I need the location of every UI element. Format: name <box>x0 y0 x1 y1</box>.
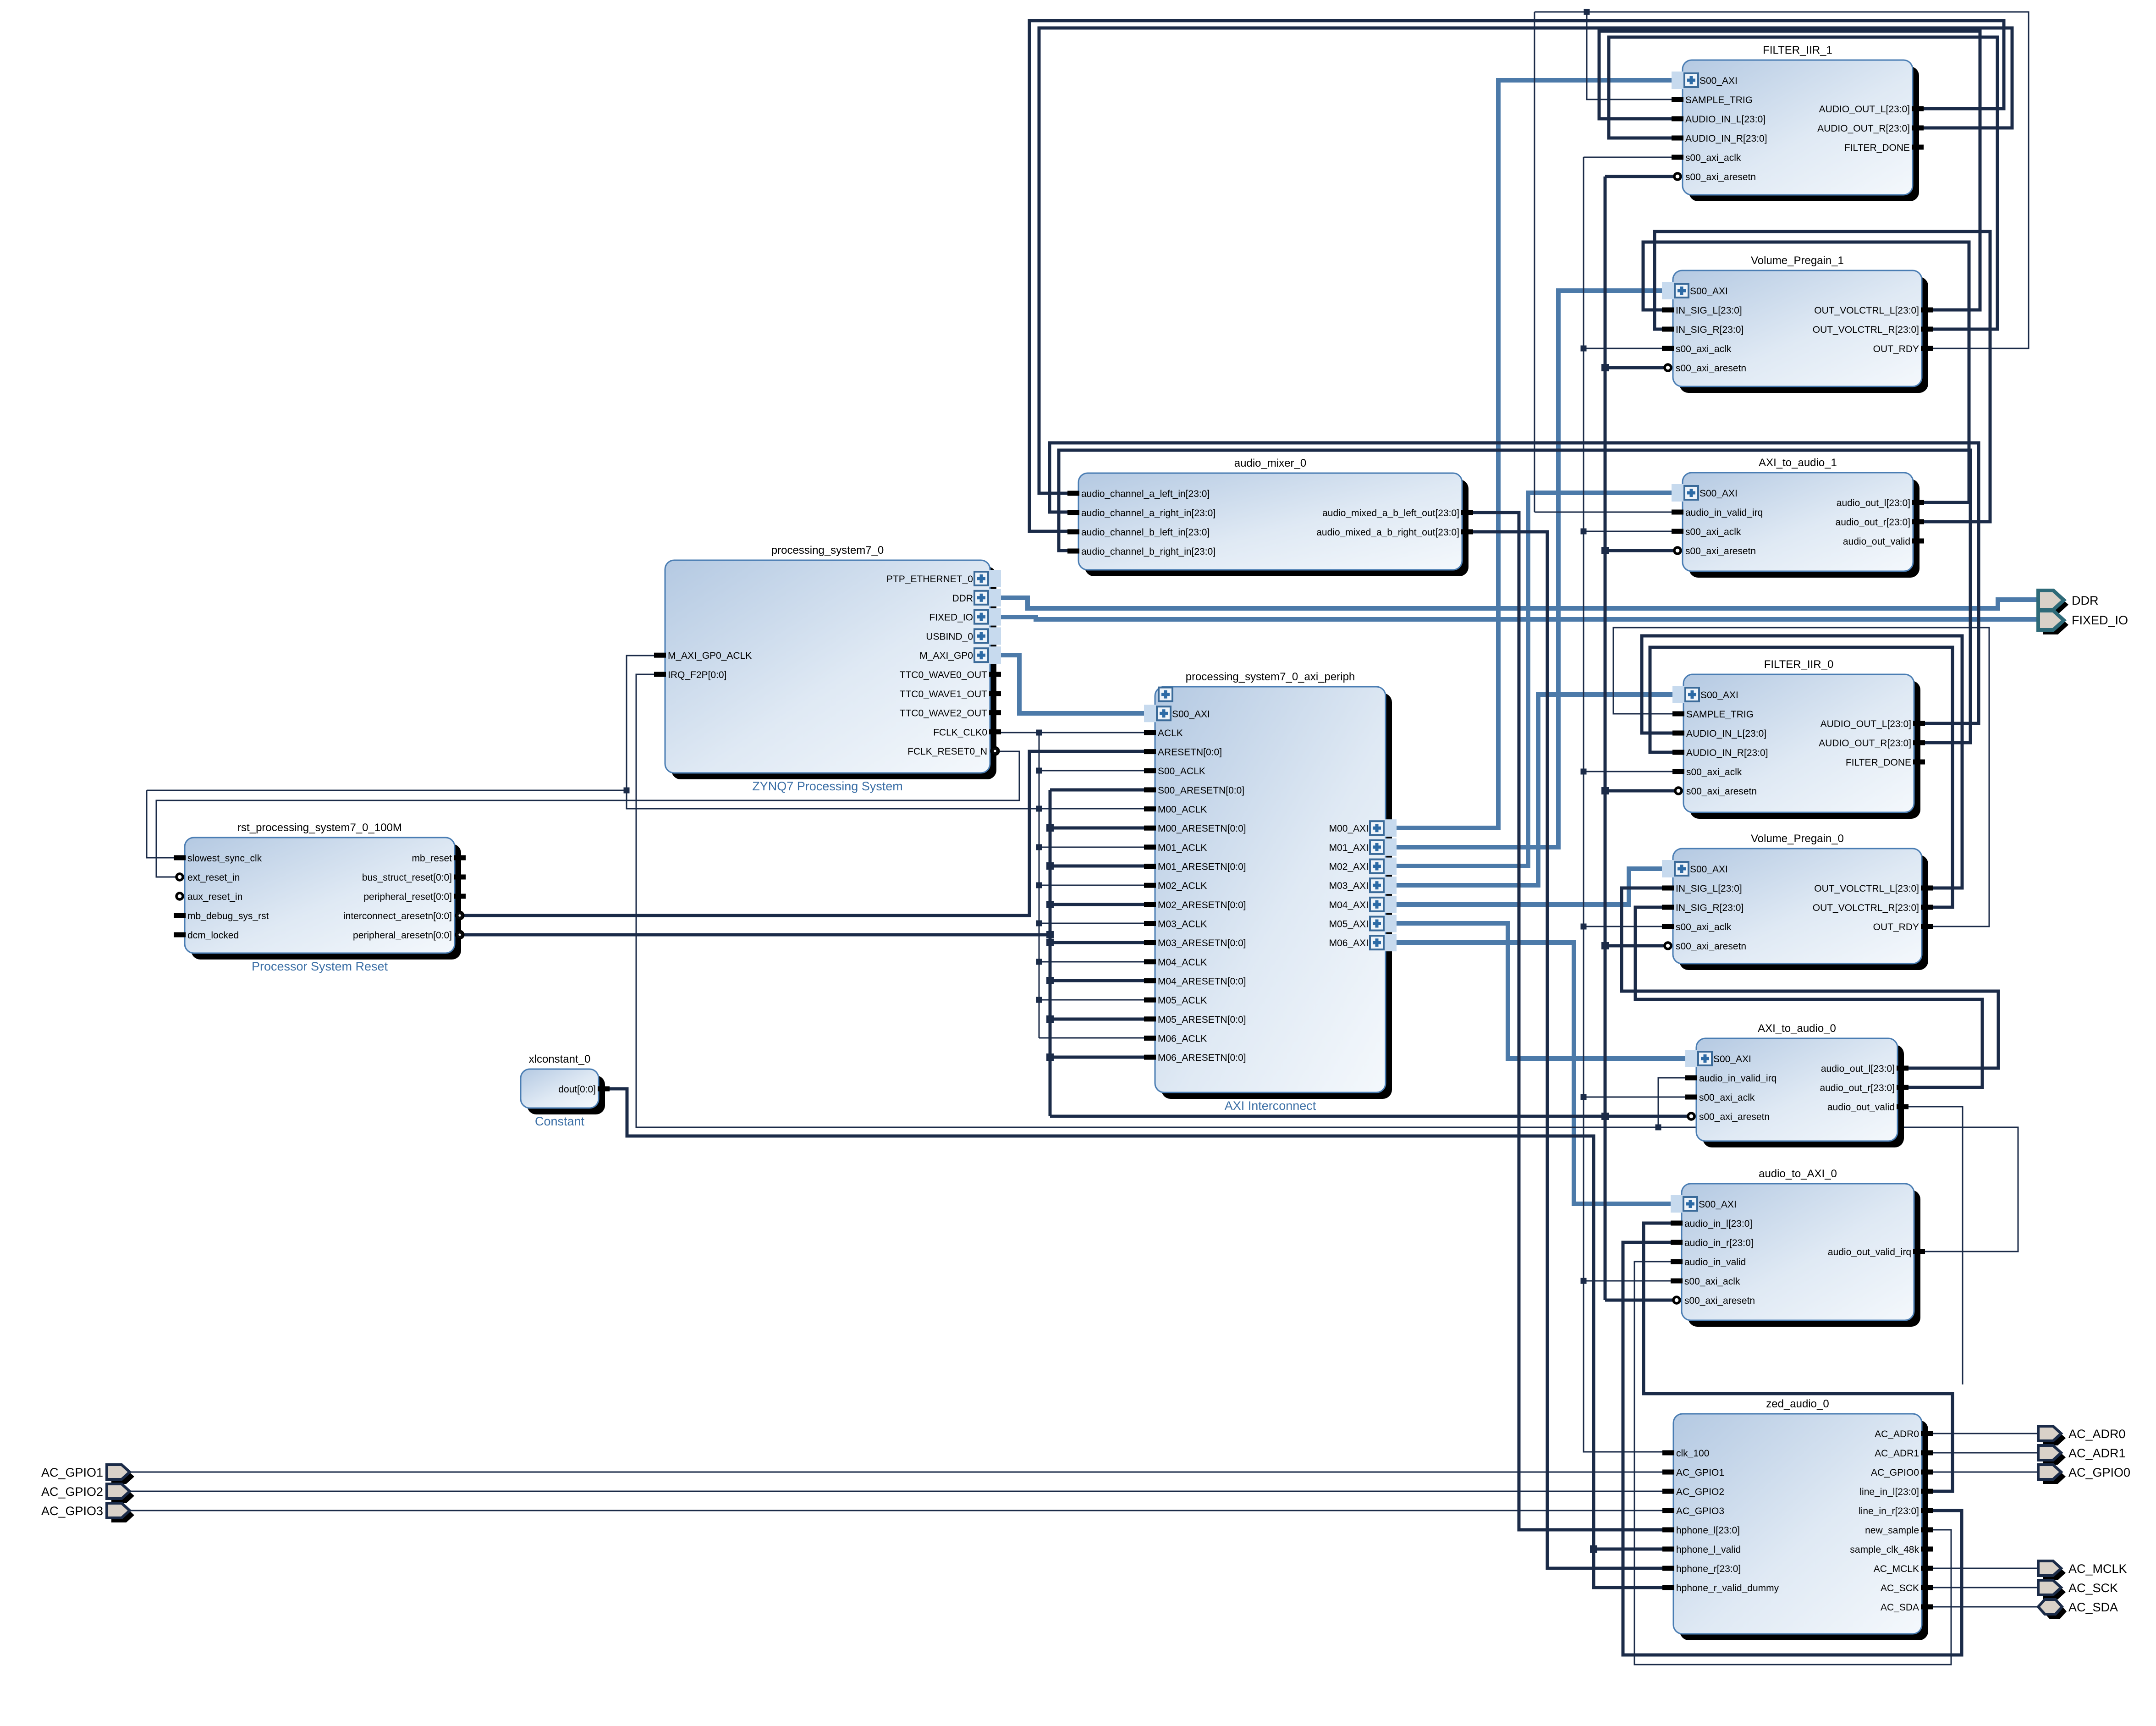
svg-text:IN_SIG_L[23:0]: IN_SIG_L[23:0] <box>1676 305 1742 316</box>
svg-text:OUT_RDY: OUT_RDY <box>1873 344 1919 354</box>
svg-text:s00_axi_aclk: s00_axi_aclk <box>1699 1092 1755 1103</box>
svg-text:AUDIO_IN_L[23:0]: AUDIO_IN_L[23:0] <box>1685 114 1765 125</box>
svg-text:AUDIO_OUT_L[23:0]: AUDIO_OUT_L[23:0] <box>1819 104 1910 115</box>
svg-text:AC_ADR1: AC_ADR1 <box>2068 1446 2126 1460</box>
svg-text:line_in_l[23:0]: line_in_l[23:0] <box>1859 1487 1919 1497</box>
svg-text:OUT_VOLCTRL_R[23:0]: OUT_VOLCTRL_R[23:0] <box>1813 325 1919 335</box>
svg-text:processing_system7_0_axi_perip: processing_system7_0_axi_periph <box>1186 671 1355 683</box>
svg-text:s00_axi_aresetn: s00_axi_aresetn <box>1676 941 1746 952</box>
svg-text:M00_ARESETN[0:0]: M00_ARESETN[0:0] <box>1158 823 1246 834</box>
svg-text:s00_axi_aresetn: s00_axi_aresetn <box>1685 172 1756 182</box>
svg-text:AC_GPIO0: AC_GPIO0 <box>2068 1466 2130 1479</box>
svg-text:IN_SIG_L[23:0]: IN_SIG_L[23:0] <box>1676 883 1742 894</box>
svg-text:SAMPLE_TRIG: SAMPLE_TRIG <box>1685 95 1753 105</box>
svg-text:audio_channel_a_left_in[23:0]: audio_channel_a_left_in[23:0] <box>1081 489 1210 499</box>
svg-text:peripheral_aresetn[0:0]: peripheral_aresetn[0:0] <box>353 930 452 941</box>
svg-text:IN_SIG_R[23:0]: IN_SIG_R[23:0] <box>1676 325 1743 335</box>
svg-text:audio_in_r[23:0]: audio_in_r[23:0] <box>1684 1238 1754 1248</box>
svg-text:audio_in_valid_irq: audio_in_valid_irq <box>1699 1073 1776 1084</box>
svg-text:S00_AXI: S00_AXI <box>1700 690 1738 700</box>
svg-text:S00_AXI: S00_AXI <box>1690 864 1728 875</box>
svg-text:audio_out_valid: audio_out_valid <box>1827 1102 1895 1113</box>
svg-text:AXI_to_audio_1: AXI_to_audio_1 <box>1759 457 1837 469</box>
svg-text:TTC0_WAVE1_OUT: TTC0_WAVE1_OUT <box>900 689 988 700</box>
svg-text:AC_MCLK: AC_MCLK <box>1874 1564 1919 1574</box>
svg-text:OUT_VOLCTRL_L[23:0]: OUT_VOLCTRL_L[23:0] <box>1814 883 1919 894</box>
svg-text:M06_ARESETN[0:0]: M06_ARESETN[0:0] <box>1158 1053 1246 1063</box>
svg-text:AC_ADR0: AC_ADR0 <box>2068 1427 2126 1441</box>
svg-text:audio_in_valid_irq: audio_in_valid_irq <box>1685 507 1763 518</box>
svg-text:S00_ACLK: S00_ACLK <box>1158 766 1205 777</box>
svg-text:AUDIO_IN_R[23:0]: AUDIO_IN_R[23:0] <box>1686 748 1768 758</box>
svg-text:M06_AXI: M06_AXI <box>1329 938 1369 948</box>
svg-text:rst_processing_system7_0_100M: rst_processing_system7_0_100M <box>237 822 402 834</box>
svg-text:S00_AXI: S00_AXI <box>1172 709 1210 719</box>
svg-text:peripheral_reset[0:0]: peripheral_reset[0:0] <box>363 892 452 902</box>
svg-text:IRQ_F2P[0:0]: IRQ_F2P[0:0] <box>668 670 726 680</box>
svg-text:s00_axi_aresetn: s00_axi_aresetn <box>1699 1112 1770 1122</box>
svg-text:audio_out_r[23:0]: audio_out_r[23:0] <box>1836 517 1910 528</box>
svg-text:hphone_l_valid: hphone_l_valid <box>1676 1544 1741 1555</box>
svg-text:s00_axi_aresetn: s00_axi_aresetn <box>1686 786 1757 797</box>
svg-text:audio_to_AXI_0: audio_to_AXI_0 <box>1759 1168 1837 1180</box>
svg-text:M04_AXI: M04_AXI <box>1329 900 1369 910</box>
svg-text:DDR: DDR <box>2072 594 2099 607</box>
svg-text:M03_ACLK: M03_ACLK <box>1158 919 1207 930</box>
svg-text:M01_ACLK: M01_ACLK <box>1158 843 1207 853</box>
svg-text:s00_axi_aresetn: s00_axi_aresetn <box>1676 363 1746 374</box>
svg-text:IN_SIG_R[23:0]: IN_SIG_R[23:0] <box>1676 903 1743 913</box>
svg-text:M05_ARESETN[0:0]: M05_ARESETN[0:0] <box>1158 1015 1246 1025</box>
svg-text:M06_ACLK: M06_ACLK <box>1158 1033 1207 1044</box>
svg-text:dout[0:0]: dout[0:0] <box>558 1084 596 1095</box>
svg-text:audio_out_l[23:0]: audio_out_l[23:0] <box>1837 498 1910 508</box>
svg-text:s00_axi_aclk: s00_axi_aclk <box>1685 527 1741 537</box>
svg-text:audio_out_valid_irq: audio_out_valid_irq <box>1828 1247 1911 1257</box>
svg-text:AUDIO_IN_L[23:0]: AUDIO_IN_L[23:0] <box>1686 728 1766 739</box>
svg-text:SAMPLE_TRIG: SAMPLE_TRIG <box>1686 709 1754 720</box>
svg-text:TTC0_WAVE0_OUT: TTC0_WAVE0_OUT <box>900 670 988 680</box>
svg-text:AXI Interconnect: AXI Interconnect <box>1225 1099 1316 1113</box>
svg-text:FCLK_RESET0_N: FCLK_RESET0_N <box>907 746 987 757</box>
svg-text:M05_ACLK: M05_ACLK <box>1158 995 1207 1006</box>
svg-text:OUT_VOLCTRL_L[23:0]: OUT_VOLCTRL_L[23:0] <box>1814 305 1919 316</box>
svg-text:AC_GPIO3: AC_GPIO3 <box>1676 1506 1724 1516</box>
svg-text:s00_axi_aresetn: s00_axi_aresetn <box>1684 1296 1755 1306</box>
svg-text:s00_axi_aclk: s00_axi_aclk <box>1676 922 1732 932</box>
svg-text:audio_out_valid: audio_out_valid <box>1843 536 1910 547</box>
svg-text:Volume_Pregain_1: Volume_Pregain_1 <box>1751 254 1844 267</box>
svg-text:new_sample: new_sample <box>1865 1525 1919 1536</box>
svg-text:clk_100: clk_100 <box>1676 1448 1709 1459</box>
svg-text:AUDIO_IN_R[23:0]: AUDIO_IN_R[23:0] <box>1685 133 1767 144</box>
svg-text:M02_ACLK: M02_ACLK <box>1158 881 1207 891</box>
svg-text:xlconstant_0: xlconstant_0 <box>529 1053 591 1065</box>
svg-text:M04_ACLK: M04_ACLK <box>1158 957 1207 968</box>
svg-text:s00_axi_aclk: s00_axi_aclk <box>1685 153 1741 163</box>
svg-text:M01_ARESETN[0:0]: M01_ARESETN[0:0] <box>1158 862 1246 872</box>
svg-text:S00_AXI: S00_AXI <box>1699 76 1738 86</box>
svg-text:AC_ADR0: AC_ADR0 <box>1875 1429 1919 1439</box>
svg-text:ARESETN[0:0]: ARESETN[0:0] <box>1158 747 1222 758</box>
svg-text:AUDIO_OUT_R[23:0]: AUDIO_OUT_R[23:0] <box>1819 738 1911 749</box>
svg-text:M04_ARESETN[0:0]: M04_ARESETN[0:0] <box>1158 976 1246 987</box>
svg-text:M03_ARESETN[0:0]: M03_ARESETN[0:0] <box>1158 938 1246 948</box>
svg-text:hphone_r_valid_dummy: hphone_r_valid_dummy <box>1676 1583 1779 1594</box>
svg-text:OUT_RDY: OUT_RDY <box>1873 922 1919 932</box>
svg-text:ZYNQ7 Processing System: ZYNQ7 Processing System <box>752 779 903 793</box>
svg-text:audio_mixed_a_b_right_out[23:0: audio_mixed_a_b_right_out[23:0] <box>1316 527 1459 538</box>
svg-text:sample_clk_48k: sample_clk_48k <box>1850 1544 1919 1555</box>
svg-text:M03_AXI: M03_AXI <box>1329 881 1369 891</box>
svg-text:audio_out_r[23:0]: audio_out_r[23:0] <box>1820 1083 1895 1093</box>
svg-text:AC_SCK: AC_SCK <box>1881 1583 1919 1594</box>
svg-text:audio_mixed_a_b_left_out[23:0]: audio_mixed_a_b_left_out[23:0] <box>1322 508 1459 518</box>
svg-text:mb_debug_sys_rst: mb_debug_sys_rst <box>187 911 269 921</box>
svg-text:slowest_sync_clk: slowest_sync_clk <box>187 853 262 864</box>
svg-text:AXI_to_audio_0: AXI_to_audio_0 <box>1758 1022 1836 1035</box>
svg-text:AC_MCLK: AC_MCLK <box>2068 1562 2127 1576</box>
svg-text:audio_channel_a_right_in[23:0]: audio_channel_a_right_in[23:0] <box>1081 508 1215 518</box>
svg-text:bus_struct_reset[0:0]: bus_struct_reset[0:0] <box>362 872 452 883</box>
svg-text:S00_AXI: S00_AXI <box>1699 1199 1737 1210</box>
svg-text:zed_audio_0: zed_audio_0 <box>1766 1398 1829 1410</box>
svg-text:PTP_ETHERNET_0: PTP_ETHERNET_0 <box>886 574 973 585</box>
svg-text:mb_reset: mb_reset <box>412 853 452 864</box>
svg-text:interconnect_aresetn[0:0]: interconnect_aresetn[0:0] <box>343 911 452 921</box>
svg-text:s00_axi_aresetn: s00_axi_aresetn <box>1685 546 1756 557</box>
svg-text:M_AXI_GP0: M_AXI_GP0 <box>919 651 973 661</box>
svg-text:AC_SDA: AC_SDA <box>2068 1600 2118 1614</box>
svg-text:ext_reset_in: ext_reset_in <box>187 872 240 883</box>
svg-text:dcm_locked: dcm_locked <box>187 930 239 941</box>
svg-text:FILTER_IIR_0: FILTER_IIR_0 <box>1764 658 1834 671</box>
svg-text:AC_GPIO3: AC_GPIO3 <box>41 1504 103 1518</box>
svg-text:s00_axi_aclk: s00_axi_aclk <box>1676 344 1732 354</box>
svg-text:M05_AXI: M05_AXI <box>1329 919 1369 930</box>
svg-text:AC_GPIO2: AC_GPIO2 <box>1676 1487 1724 1497</box>
svg-text:AC_GPIO2: AC_GPIO2 <box>41 1485 103 1499</box>
svg-text:TTC0_WAVE2_OUT: TTC0_WAVE2_OUT <box>900 708 988 719</box>
svg-text:s00_axi_aclk: s00_axi_aclk <box>1686 767 1742 778</box>
svg-text:AC_GPIO1: AC_GPIO1 <box>41 1466 103 1479</box>
svg-text:AC_GPIO0: AC_GPIO0 <box>1871 1467 1919 1478</box>
svg-text:FILTER_DONE: FILTER_DONE <box>1846 757 1911 768</box>
svg-text:AC_SCK: AC_SCK <box>2068 1581 2118 1595</box>
svg-text:audio_mixer_0: audio_mixer_0 <box>1234 457 1306 469</box>
svg-text:processing_system7_0: processing_system7_0 <box>771 544 884 557</box>
svg-text:audio_channel_b_right_in[23:0]: audio_channel_b_right_in[23:0] <box>1081 546 1215 557</box>
svg-text:AC_SDA: AC_SDA <box>1881 1602 1919 1613</box>
svg-text:USBIND_0: USBIND_0 <box>926 631 973 642</box>
svg-text:audio_out_l[23:0]: audio_out_l[23:0] <box>1821 1064 1895 1074</box>
svg-text:line_in_r[23:0]: line_in_r[23:0] <box>1859 1506 1919 1516</box>
svg-text:AUDIO_OUT_R[23:0]: AUDIO_OUT_R[23:0] <box>1817 123 1910 134</box>
svg-text:hphone_r[23:0]: hphone_r[23:0] <box>1676 1564 1741 1574</box>
svg-text:Constant: Constant <box>535 1114 585 1128</box>
svg-text:OUT_VOLCTRL_R[23:0]: OUT_VOLCTRL_R[23:0] <box>1813 903 1919 913</box>
svg-text:M_AXI_GP0_ACLK: M_AXI_GP0_ACLK <box>668 651 752 661</box>
svg-text:aux_reset_in: aux_reset_in <box>187 892 242 902</box>
svg-text:FILTER_DONE: FILTER_DONE <box>1844 143 1910 153</box>
svg-text:hphone_l[23:0]: hphone_l[23:0] <box>1676 1525 1740 1536</box>
svg-text:M01_AXI: M01_AXI <box>1329 843 1369 853</box>
svg-text:AUDIO_OUT_L[23:0]: AUDIO_OUT_L[23:0] <box>1820 719 1911 729</box>
svg-text:S00_AXI: S00_AXI <box>1690 286 1728 297</box>
svg-text:Processor System Reset: Processor System Reset <box>252 960 388 973</box>
svg-text:audio_in_valid: audio_in_valid <box>1684 1257 1746 1268</box>
svg-text:S00_ARESETN[0:0]: S00_ARESETN[0:0] <box>1158 785 1244 796</box>
svg-text:AC_ADR1: AC_ADR1 <box>1875 1448 1919 1459</box>
svg-text:ACLK: ACLK <box>1158 728 1183 739</box>
svg-text:M02_AXI: M02_AXI <box>1329 862 1369 872</box>
svg-text:FCLK_CLK0: FCLK_CLK0 <box>933 727 987 738</box>
svg-text:FILTER_IIR_1: FILTER_IIR_1 <box>1763 44 1832 56</box>
svg-text:FIXED_IO: FIXED_IO <box>929 612 973 623</box>
svg-text:M00_ACLK: M00_ACLK <box>1158 805 1207 815</box>
svg-text:AC_GPIO1: AC_GPIO1 <box>1676 1467 1724 1478</box>
svg-text:audio_in_l[23:0]: audio_in_l[23:0] <box>1684 1219 1752 1229</box>
svg-text:M00_AXI: M00_AXI <box>1329 823 1369 834</box>
svg-text:M02_ARESETN[0:0]: M02_ARESETN[0:0] <box>1158 900 1246 910</box>
svg-text:DDR: DDR <box>952 593 973 604</box>
svg-text:s00_axi_aclk: s00_axi_aclk <box>1684 1276 1740 1287</box>
svg-text:audio_channel_b_left_in[23:0]: audio_channel_b_left_in[23:0] <box>1081 527 1210 538</box>
svg-text:S00_AXI: S00_AXI <box>1699 488 1738 499</box>
svg-text:Volume_Pregain_0: Volume_Pregain_0 <box>1751 833 1844 845</box>
svg-text:S00_AXI: S00_AXI <box>1713 1054 1751 1064</box>
svg-text:FIXED_IO: FIXED_IO <box>2072 613 2128 627</box>
